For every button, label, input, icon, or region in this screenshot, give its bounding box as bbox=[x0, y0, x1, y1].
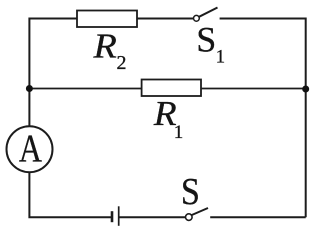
battery: short thick plate bbox=[111, 211, 114, 222]
wire: battery to switch S bbox=[119, 216, 186, 218]
resistor R2 bbox=[77, 11, 137, 28]
wire: left vertical below ammeter + bottom to battery bbox=[29, 172, 112, 217]
wire: S to bottom-right corner bbox=[210, 216, 306, 218]
wire: middle branch right segment bbox=[201, 88, 306, 90]
svg-text:2: 2 bbox=[117, 52, 127, 74]
switch S pivot bbox=[186, 214, 193, 221]
svg-text:A: A bbox=[19, 126, 42, 170]
svg-text:R: R bbox=[92, 26, 116, 65]
wire: R2 to switch S1 bbox=[137, 18, 194, 20]
svg-text:S: S bbox=[196, 20, 216, 60]
wire: top-left horizontal (corner to R2) bbox=[29, 19, 77, 128]
svg-text:1: 1 bbox=[216, 47, 226, 68]
ammeter A bbox=[7, 126, 53, 172]
wire: S1 to top-right corner and right vertical bbox=[220, 19, 306, 218]
switch S1 pivot bbox=[194, 15, 200, 21]
wire: middle branch left segment bbox=[29, 88, 141, 90]
battery: long thin plate bbox=[118, 206, 120, 226]
switch S1 lever bbox=[199, 8, 218, 17]
svg-text:S: S bbox=[181, 170, 200, 212]
svg-text:1: 1 bbox=[174, 122, 184, 143]
switch S lever bbox=[192, 208, 208, 215]
node: left junction dot bbox=[26, 85, 33, 92]
node: right junction dot bbox=[302, 86, 309, 93]
resistor R1 bbox=[142, 80, 201, 97]
